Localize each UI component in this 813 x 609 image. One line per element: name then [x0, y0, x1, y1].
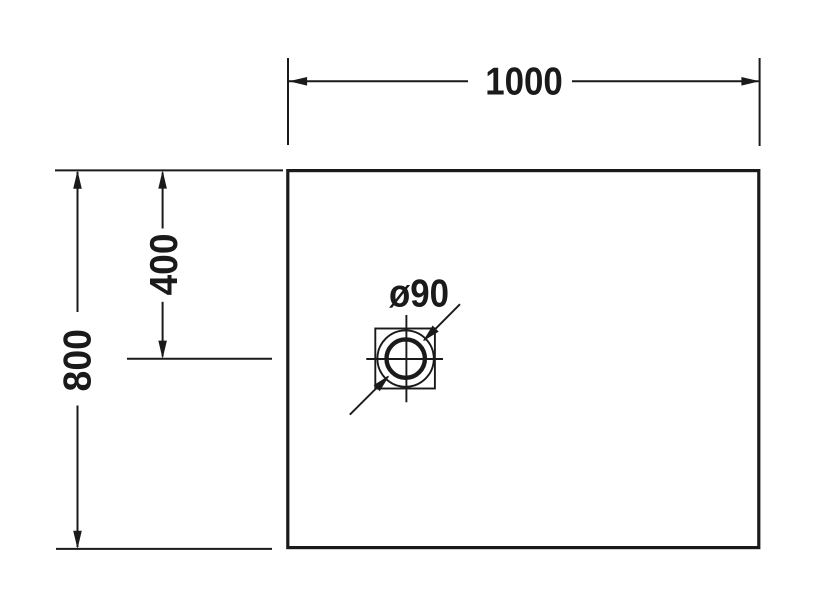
- svg-text:1000: 1000: [485, 60, 563, 103]
- wire: crosshair horizontal: [366, 358, 443, 360]
- wire: 400 dimension line upper segment: [162, 173, 164, 229]
- arrowhead: top dim left: [289, 77, 307, 86]
- arrowhead: 800 dim bottom: [73, 531, 82, 549]
- wire: left top extension line: [55, 169, 283, 171]
- wire: left bottom extension line: [56, 548, 272, 550]
- wire: top dimension line right segment: [572, 80, 759, 82]
- svg-text:ø90: ø90: [389, 272, 449, 315]
- arrowhead: 400 dim top: [158, 170, 167, 188]
- arrowhead: 400 dim bottom: [158, 341, 167, 359]
- wire: diagonal leader line lower segment: [350, 377, 388, 415]
- drain inner circle: [387, 339, 425, 377]
- arrowhead: diagonal upper (points to circle): [423, 326, 439, 342]
- drain square: [375, 329, 435, 389]
- wire: diagonal leader line upper segment: [424, 304, 460, 340]
- arrowhead: top dim right: [741, 77, 759, 86]
- arrowhead: diagonal lower (points to circle): [374, 375, 390, 391]
- wire: 800 dimension line lower segment: [77, 406, 79, 548]
- wire: top dimension line left segment: [289, 80, 468, 82]
- svg-text:800: 800: [57, 329, 100, 391]
- wire: left middle extension line: [127, 358, 272, 360]
- arrowhead: 800 dim top: [73, 171, 82, 189]
- wire: top extension line left: [287, 58, 289, 145]
- wire: 400 dimension line lower segment: [162, 302, 164, 357]
- wire: crosshair vertical: [405, 315, 407, 402]
- tray outline rectangle: [288, 171, 759, 548]
- wire: top extension line right: [759, 58, 761, 146]
- svg-text:400: 400: [143, 233, 186, 295]
- drain outer circle: [377, 330, 433, 386]
- wire: 800 dimension line upper segment: [77, 172, 79, 312]
